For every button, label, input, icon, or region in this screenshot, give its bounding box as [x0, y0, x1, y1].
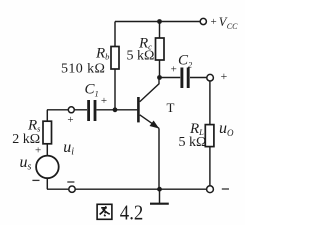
minus source: [32, 179, 39, 181]
node dot base: [113, 107, 118, 112]
resistor RL: [205, 125, 214, 147]
capacitor C1: [89, 100, 95, 121]
wire base line right (C1 to base): [97, 109, 138, 111]
wire Rc branch vertical: [159, 22, 161, 78]
terminal input bottom: [69, 186, 75, 192]
svg-text:C2: C2: [178, 53, 193, 70]
svg-text:T: T: [167, 100, 175, 115]
minus output: [222, 188, 229, 190]
svg-text:+: +: [221, 69, 228, 83]
svg-text:4.2: 4.2: [120, 200, 144, 224]
transistor T: [138, 78, 159, 129]
terminal input top: [68, 107, 74, 113]
svg-text:5 kΩ: 5 kΩ: [127, 49, 155, 64]
resistor Rb: [111, 47, 119, 70]
svg-text:+: +: [35, 145, 41, 157]
svg-text:us: us: [20, 154, 32, 173]
ground: [159, 189, 161, 203]
wire top rail: [115, 21, 200, 23]
minus input bottom: [67, 181, 74, 183]
wire bottom rail: [47, 188, 207, 190]
terminal output bottom: [207, 186, 214, 193]
wire base line left (terminal to C1): [47, 109, 87, 111]
svg-text:5 kΩ: 5 kΩ: [179, 135, 207, 150]
svg-text:VCC: VCC: [219, 15, 238, 31]
svg-text:+: +: [171, 63, 177, 75]
svg-text:Rb: Rb: [95, 46, 109, 62]
resistor Rc: [156, 38, 165, 60]
wire C2 to output terminal: [190, 77, 207, 79]
wire emitter vertical: [158, 128, 160, 189]
wire left source branch: [46, 110, 48, 189]
svg-text:uO: uO: [219, 120, 234, 138]
svg-text:C1: C1: [85, 82, 99, 99]
svg-text:510 kΩ: 510 kΩ: [61, 62, 105, 77]
terminal +Vcc: [200, 18, 206, 24]
wire right output branch vertical: [209, 81, 211, 186]
svg-text:+: +: [211, 16, 217, 28]
source us: [36, 156, 59, 179]
terminal output top: [207, 74, 214, 81]
svg-text:ui: ui: [63, 139, 74, 158]
node dot collector: [157, 75, 162, 80]
node dot top rail: [157, 19, 162, 24]
svg-text:+: +: [101, 95, 107, 107]
caption tu glyph: [97, 204, 112, 219]
capacitor C2: [182, 68, 188, 89]
wire Rb branch vertical: [114, 22, 116, 110]
node dot emitter bottom: [157, 187, 162, 192]
resistor Rs: [43, 121, 52, 144]
wire collector line to C2: [160, 77, 181, 79]
svg-text:+: +: [67, 114, 73, 126]
